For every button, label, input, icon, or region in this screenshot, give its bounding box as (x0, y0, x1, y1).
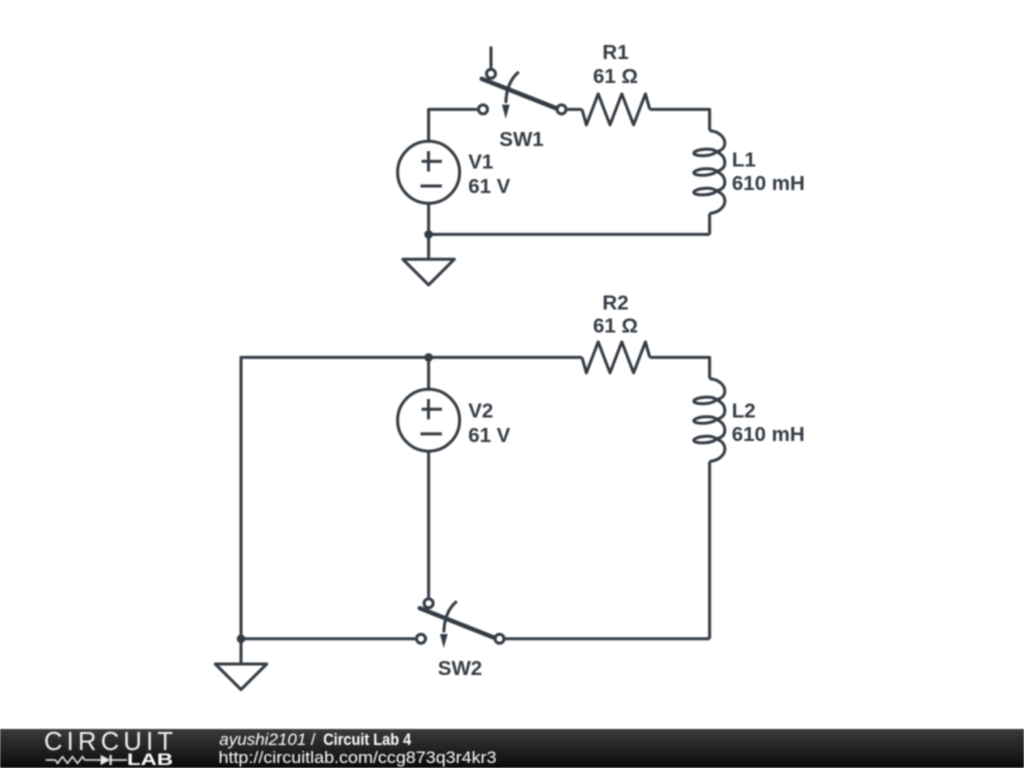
svg-text:R1: R1 (602, 41, 628, 64)
node junction circuit 1 (424, 230, 433, 239)
wire V2 top (427, 357, 430, 389)
node junction circuit 2 bottom (237, 635, 246, 644)
left and top wire circuit 2 (241, 357, 582, 638)
svg-text:http://circuitlab.com/ccg873q3: http://circuitlab.com/ccg873q3r4kr3 (219, 748, 497, 767)
svg-text:61 Ω: 61 Ω (593, 65, 638, 88)
logo resistor doodle (56, 757, 85, 764)
voltage source V2 (398, 389, 460, 451)
ground 2 (215, 664, 266, 690)
SW1 blade (482, 79, 557, 109)
svg-text:LAB: LAB (127, 751, 173, 768)
svg-text:61 V: 61 V (468, 424, 510, 447)
SW2 left terminal (417, 634, 426, 643)
svg-text:Circuit Lab 4: Circuit Lab 4 (323, 731, 412, 749)
V2 minus sign (421, 432, 442, 435)
wire V2 to SW2 (427, 451, 430, 597)
logo diode cathode bar (109, 755, 111, 765)
logo wire middle (85, 759, 101, 761)
wire to ground 2 (240, 639, 243, 664)
wire V1 bottom (427, 203, 430, 234)
wire L2 bottom (708, 461, 711, 638)
node junction circuit 2 top (424, 353, 433, 362)
svg-text:SW2: SW2 (438, 657, 482, 680)
svg-text:ayushi2101: ayushi2101 (219, 730, 306, 749)
SW1 arrowhead (502, 105, 510, 119)
SW1 left terminal (479, 105, 488, 114)
wire L1 bottom (708, 213, 711, 234)
svg-text:/: / (311, 730, 316, 749)
logo wire left (46, 759, 56, 761)
V1 minus sign (421, 185, 442, 188)
V1 plus sign (422, 151, 442, 171)
SW1 right terminal (557, 105, 566, 114)
V2 plus sign (422, 399, 442, 419)
bottom wire circuit 1 (429, 233, 710, 236)
svg-text:SW1: SW1 (499, 128, 543, 151)
svg-text:V2: V2 (468, 400, 493, 423)
footer bar (0, 729, 1024, 768)
svg-text:610 mH: 610 mH (732, 423, 805, 446)
voltage source V1 (398, 141, 460, 203)
wire V1 top to SW1 (429, 109, 477, 141)
bottom wire left of SW2 (241, 637, 415, 640)
wire to ground 1 (427, 234, 430, 259)
wire R1 to top-right corner (650, 109, 710, 130)
inductor L2 (710, 379, 725, 462)
logo diode triangle (101, 755, 111, 765)
logo wire right (112, 759, 128, 761)
resistor R2 (582, 342, 650, 373)
bottom wire right of SW2 (505, 637, 710, 640)
SW1 actuation arc (506, 72, 519, 103)
svg-text:610 mH: 610 mH (732, 172, 805, 195)
SW2 actuation arc (444, 601, 457, 632)
svg-text:L1: L1 (732, 148, 756, 171)
ground 1 (403, 259, 454, 285)
svg-text:R2: R2 (602, 291, 628, 314)
SW2 blade (420, 608, 495, 638)
switch SW1 top stub (490, 47, 493, 68)
resistor R1 (582, 94, 650, 125)
svg-text:61 Ω: 61 Ω (593, 315, 638, 338)
svg-text:V1: V1 (468, 150, 493, 173)
svg-text:61 V: 61 V (468, 175, 510, 198)
SW2 arrowhead (440, 634, 448, 648)
SW2 top terminal (424, 599, 433, 608)
SW1 top terminal (487, 69, 496, 78)
SW2 right terminal (495, 634, 504, 643)
inductor L1 (710, 131, 725, 214)
wire R2 to top-right corner (650, 357, 710, 378)
wire SW1 to R1 (568, 108, 583, 111)
svg-text:L2: L2 (732, 400, 756, 423)
